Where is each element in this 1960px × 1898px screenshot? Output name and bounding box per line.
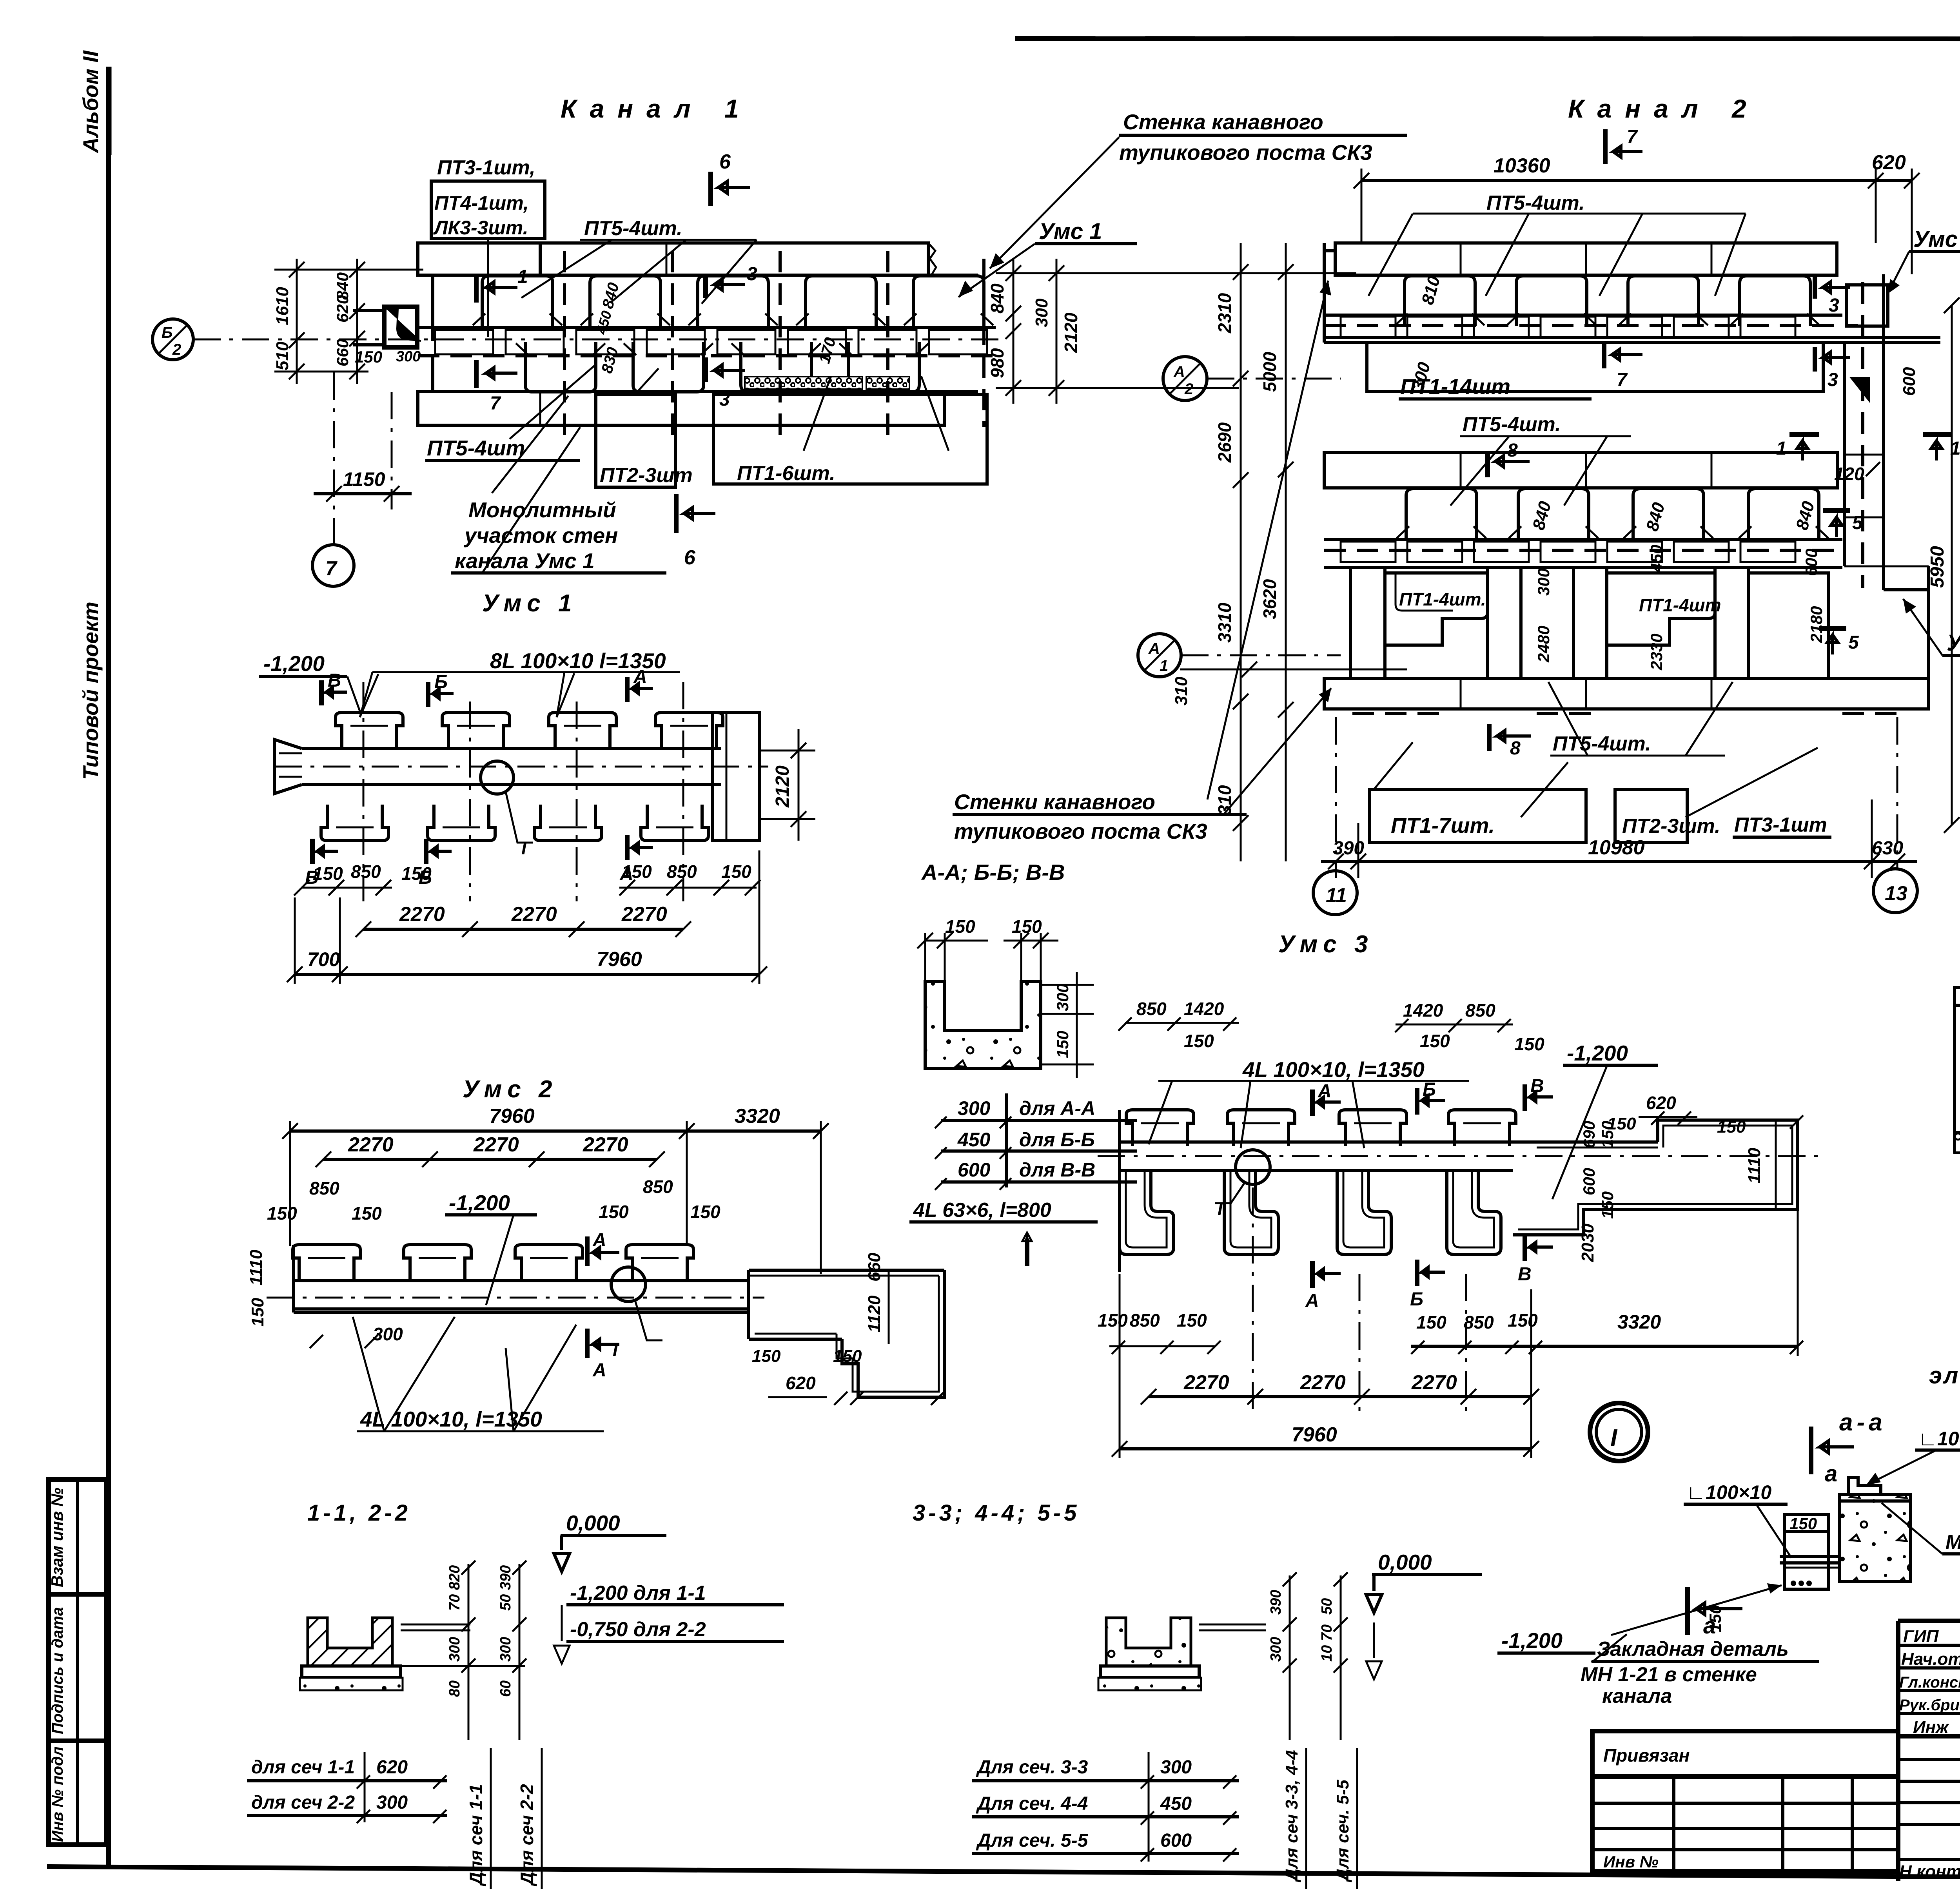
svg-text:Умс 1: Умс 1 — [1039, 219, 1102, 244]
svg-text:150: 150 — [1717, 1117, 1746, 1137]
svg-text:850: 850 — [1464, 1312, 1494, 1332]
svg-text:А: А — [633, 667, 647, 687]
svg-text:2270: 2270 — [399, 903, 445, 926]
svg-text:2120: 2120 — [1061, 312, 1081, 353]
svg-text:150: 150 — [1508, 1310, 1538, 1331]
svg-text:50: 50 — [1319, 1598, 1335, 1615]
svg-text:Умс 1: Умс 1 — [482, 590, 577, 617]
svg-text:ПТ5-4шт.: ПТ5-4шт. — [584, 217, 682, 240]
svg-text:450: 450 — [957, 1129, 991, 1151]
svg-text:3310: 3310 — [1214, 602, 1235, 643]
svg-text:310: 310 — [1172, 676, 1191, 705]
U channel with base — [308, 1618, 392, 1666]
staff table row lines — [1898, 1644, 1960, 1647]
detail circle I small — [481, 761, 514, 794]
svg-text:Рук.бриг: Рук.бриг — [1899, 1697, 1960, 1714]
svg-text:620: 620 — [1872, 151, 1906, 174]
svg-text:2270: 2270 — [511, 903, 557, 926]
left end corner element — [384, 307, 417, 347]
left attach table — [1592, 1731, 1898, 1871]
svg-text:150: 150 — [1416, 1312, 1446, 1332]
svg-text:Инв № подл: Инв № подл — [49, 1746, 66, 1842]
left vertical dims k2 — [1240, 243, 1242, 861]
block row — [418, 326, 996, 329]
PT1-14 box and label — [1367, 343, 1823, 392]
svg-text:3620: 3620 — [1259, 579, 1280, 619]
A section marks — [585, 1236, 590, 1266]
leader box PT4/LK3 — [431, 181, 545, 239]
svg-text:ПТ1-14шт: ПТ1-14шт — [1400, 374, 1510, 399]
svg-text:ПТ5-4шт.: ПТ5-4шт. — [1553, 732, 1651, 755]
vertical dashdot axes — [363, 682, 365, 901]
svg-text:300: 300 — [958, 1097, 991, 1119]
svg-text:Нач.отд.: Нач.отд. — [1901, 1650, 1960, 1669]
svg-text:150: 150 — [1098, 1310, 1128, 1331]
svg-text:ПТ1-4шт.: ПТ1-4шт. — [1399, 589, 1486, 609]
svg-text:2270: 2270 — [1300, 1371, 1346, 1394]
svg-text:элементов каналов - лист 2: элементов каналов - лист 27. — [1929, 1362, 1960, 1389]
right end block — [712, 712, 759, 841]
svg-text:620: 620 — [1646, 1093, 1676, 1113]
svg-text:150: 150 — [833, 1347, 862, 1366]
svg-text:150: 150 — [1514, 1034, 1544, 1054]
svg-text:10980: 10980 — [1588, 836, 1645, 859]
svg-text:150: 150 — [599, 1202, 629, 1222]
title block outer top edge — [1898, 1619, 1960, 1623]
svg-text:А: А — [1173, 363, 1185, 381]
svg-text:390: 390 — [1333, 838, 1364, 859]
dotted KZ strips — [745, 377, 862, 389]
svg-text:7: 7 — [1617, 370, 1628, 390]
svg-text:2690: 2690 — [1214, 422, 1235, 463]
svg-text:ПТ3-1шт,: ПТ3-1шт, — [437, 156, 535, 179]
svg-text:850: 850 — [1465, 1000, 1495, 1021]
svg-text:Для сеч 3-3, 4-4: Для сеч 3-3, 4-4 — [1282, 1750, 1301, 1883]
svg-text:Канал 1: Канал 1 — [561, 94, 752, 123]
svg-text:Взам инв №: Взам инв № — [48, 1488, 66, 1587]
section mark 7 top — [1603, 129, 1608, 164]
svg-text:-1,200: -1,200 — [1567, 1041, 1628, 1065]
right dims of U — [1041, 984, 1094, 986]
top slab band — [418, 243, 928, 275]
section arrows a top — [1809, 1427, 1813, 1474]
svg-text:3-3; 4-4; 5-5: 3-3; 4-4; 5-5 — [913, 1500, 1080, 1526]
svg-text:Б: Б — [1410, 1289, 1423, 1310]
svg-text:ПТ1-7шт.: ПТ1-7шт. — [1391, 813, 1495, 838]
svg-text:для Б-Б: для Б-Б — [1019, 1129, 1095, 1151]
svg-text:1: 1 — [1160, 657, 1168, 674]
svg-text:I: I — [1610, 1425, 1618, 1452]
svg-text:5: 5 — [1852, 513, 1863, 533]
svg-text:10 70: 10 70 — [1319, 1624, 1335, 1662]
svg-text:участок стен: участок стен — [463, 523, 618, 547]
svg-text:ПТ1-6шт.: ПТ1-6шт. — [737, 462, 835, 485]
svg-text:I: I — [613, 1340, 618, 1360]
big detail circle I — [1590, 1403, 1648, 1461]
leader diagonals into slab — [521, 240, 612, 298]
svg-text:300: 300 — [1053, 984, 1072, 1011]
svg-text:150: 150 — [267, 1203, 297, 1224]
svg-text:80: 80 — [446, 1680, 463, 1697]
svg-text:390: 390 — [1268, 1590, 1284, 1615]
svg-text:тупикового поста СК3: тупикового поста СК3 — [1119, 140, 1372, 165]
svg-text:5000: 5000 — [1259, 352, 1280, 392]
svg-text:-1,200: -1,200 — [263, 651, 325, 676]
svg-text:600: 600 — [1900, 367, 1919, 396]
svg-text:Умс 3: Умс 3 — [1278, 931, 1374, 958]
svg-text:660: 660 — [865, 1253, 884, 1282]
svg-text:150: 150 — [622, 861, 652, 882]
svg-text:Б: Б — [434, 672, 448, 692]
U channel section — [925, 981, 1041, 1068]
svg-text:620: 620 — [786, 1373, 816, 1393]
svg-text:Для сеч. 4-4: Для сеч. 4-4 — [976, 1793, 1088, 1814]
svg-text:А: А — [1148, 640, 1160, 657]
svg-text:Типовой проект: Типовой проект — [78, 602, 103, 780]
5 marks — [1823, 508, 1850, 513]
svg-text:а: а — [1703, 1613, 1716, 1639]
svg-text:2270: 2270 — [348, 1133, 394, 1156]
svg-text:150: 150 — [752, 1347, 781, 1366]
bottom border — [47, 1867, 1960, 1881]
2270 row — [1149, 1395, 1531, 1398]
svg-text:2310: 2310 — [1214, 293, 1235, 334]
svg-text:3: 3 — [1828, 370, 1838, 390]
right arm — [1531, 1140, 1658, 1144]
svg-text:0,000: 0,000 — [566, 1511, 620, 1535]
section mark 3 right top — [1813, 274, 1817, 299]
svg-text:для В-В: для В-В — [1019, 1159, 1095, 1181]
dim row 7960 — [295, 973, 759, 976]
svg-text:13: 13 — [1885, 882, 1907, 905]
svg-text:300: 300 — [376, 1792, 408, 1813]
svg-text:ЛК3-3шт.: ЛК3-3шт. — [433, 217, 528, 239]
strip with tabs up — [1120, 1140, 1531, 1144]
svg-text:150: 150 — [1184, 1031, 1214, 1051]
svg-text:300: 300 — [446, 1637, 463, 1662]
upper slab band — [1335, 243, 1837, 275]
svg-text:150: 150 — [945, 916, 975, 937]
svg-text:Стенка канавного: Стенка канавного — [1123, 110, 1323, 134]
bottom dim line k2 — [1321, 860, 1917, 863]
svg-text:Б: Б — [1423, 1079, 1436, 1100]
svg-text:6: 6 — [719, 150, 731, 173]
svg-text:Н контр. Есина: Н контр. Есина — [1899, 1862, 1960, 1881]
svg-text:150: 150 — [401, 863, 432, 884]
2120 vertical right — [798, 729, 800, 841]
Ums2 wall right — [1882, 274, 1885, 590]
svg-text:Для сеч. 3-3: Для сеч. 3-3 — [976, 1757, 1088, 1778]
block row k2 lower — [1324, 538, 1842, 541]
bottom slab band — [418, 392, 945, 425]
svg-text:ПТ3-1шт: ПТ3-1шт — [1734, 814, 1827, 836]
svg-text:700: 700 — [307, 948, 340, 970]
svg-text:3320: 3320 — [1617, 1311, 1661, 1333]
svg-text:150: 150 — [721, 861, 751, 882]
svg-text:а-а: а-а — [1839, 1409, 1886, 1436]
svg-text:А: А — [592, 1360, 606, 1381]
svg-text:600: 600 — [1160, 1830, 1192, 1851]
svg-text:150: 150 — [1789, 1514, 1817, 1533]
left flared end — [274, 740, 302, 794]
svg-text:690: 690 — [1580, 1121, 1598, 1148]
svg-text:а: а — [1825, 1461, 1837, 1486]
svg-text:Для сеч. 5-5: Для сеч. 5-5 — [1333, 1780, 1352, 1883]
svg-text:ГИП: ГИП — [1903, 1627, 1939, 1646]
lower pocket band — [1397, 489, 1486, 539]
svg-text:2270: 2270 — [621, 903, 667, 926]
svg-text:150: 150 — [1598, 1121, 1617, 1148]
svg-text:Б: Б — [162, 324, 172, 341]
svg-text:5: 5 — [1848, 632, 1859, 653]
svg-text:Альбом II: Альбом II — [78, 50, 103, 154]
svg-text:620: 620 — [376, 1757, 408, 1778]
vertical dim lines with small labels — [468, 1564, 470, 1740]
svg-text:Монолитный: Монолитный — [468, 498, 616, 522]
svg-text:4L 63×6, l=800: 4L 63×6, l=800 — [913, 1199, 1051, 1222]
middle slab band — [1324, 453, 1838, 488]
leader box PT1-6 — [713, 394, 987, 484]
svg-text:7: 7 — [325, 557, 338, 580]
svg-text:150: 150 — [352, 1203, 382, 1224]
svg-text:Для сеч 2-2: Для сеч 2-2 — [517, 1784, 537, 1887]
svg-text:1120: 1120 — [865, 1295, 884, 1332]
svg-text:850: 850 — [667, 861, 697, 882]
svg-text:∟100×10: ∟100×10 — [1686, 1481, 1771, 1503]
axis B/2 — [193, 339, 1004, 341]
svg-text:300: 300 — [1534, 568, 1553, 596]
svg-text:8: 8 — [1507, 440, 1518, 461]
centerline — [274, 766, 768, 768]
svg-text:Для сеч. 5-5: Для сеч. 5-5 — [976, 1830, 1089, 1851]
vertical dash-dot axes ums3 — [1252, 1187, 1254, 1411]
svg-text:-1,200: -1,200 — [1501, 1628, 1563, 1653]
svg-text:2: 2 — [172, 341, 181, 358]
svg-text:ПТ4-1шт,: ПТ4-1шт, — [434, 192, 529, 214]
svg-text:150: 150 — [1420, 1031, 1450, 1051]
svg-text:2270: 2270 — [1411, 1371, 1457, 1394]
svg-text:Стенки канавного: Стенки канавного — [954, 790, 1155, 814]
svg-text:620: 620 — [333, 295, 352, 323]
svg-text:600: 600 — [958, 1159, 991, 1181]
staff table outline — [1896, 1621, 1900, 1881]
svg-text:I: I — [1218, 1198, 1223, 1219]
svg-text:ПТ5-4шт.: ПТ5-4шт. — [1463, 413, 1561, 436]
svg-text:0,000: 0,000 — [1378, 1550, 1432, 1574]
left sidebar vertical rule — [106, 67, 111, 1867]
svg-text:2030: 2030 — [1578, 1224, 1597, 1262]
svg-text:для сеч 2-2: для сеч 2-2 — [251, 1792, 355, 1813]
centerline — [267, 1297, 764, 1299]
svg-text:для сеч 1-1: для сеч 1-1 — [251, 1757, 355, 1778]
centerline — [1098, 1155, 1819, 1157]
upper pocket band — [433, 274, 978, 277]
svg-text:450: 450 — [1160, 1793, 1192, 1814]
svg-text:1150: 1150 — [343, 468, 385, 490]
svg-text:-0,750 для 2-2: -0,750 для 2-2 — [570, 1618, 706, 1641]
strip with tabs up — [294, 1279, 749, 1282]
svg-text:3: 3 — [747, 264, 757, 285]
section mark 8 bottom — [1487, 724, 1492, 751]
svg-text:Умс 2: Умс 2 — [463, 1076, 558, 1103]
svg-text:6: 6 — [684, 546, 696, 569]
level lines to right — [401, 1624, 470, 1626]
7960 row — [1120, 1447, 1531, 1450]
svg-text:1110: 1110 — [247, 1249, 266, 1285]
svg-text:2120: 2120 — [772, 765, 793, 808]
svg-text:1110: 1110 — [1745, 1148, 1764, 1184]
section marks 1 top/bottom — [474, 274, 479, 303]
svg-text:60: 60 — [497, 1680, 514, 1697]
block row k2 upper — [1324, 314, 1842, 317]
A/1 circle — [1138, 634, 1181, 677]
section marks bottom — [1305, 1235, 1553, 1311]
bottom slab band k2 — [1324, 678, 1929, 709]
svg-text:2330: 2330 — [1647, 634, 1666, 671]
svg-text:I: I — [521, 838, 527, 858]
lower channel walls — [1349, 567, 1352, 678]
svg-text:для А-А: для А-А — [1019, 1097, 1095, 1119]
svg-text:2480: 2480 — [1534, 626, 1553, 663]
svg-text:Гл.констр: Гл.констр — [1899, 1674, 1960, 1691]
svg-text:МН 1-21 в стенке: МН 1-21 в стенке — [1581, 1663, 1757, 1686]
dim 2270 row — [323, 1158, 657, 1161]
svg-text:660: 660 — [333, 339, 352, 366]
left wall assembly — [1955, 988, 1960, 1153]
svg-text:1-1, 2-2: 1-1, 2-2 — [307, 1500, 411, 1526]
svg-text:ПТ1-4шт: ПТ1-4шт — [1639, 595, 1721, 615]
svg-text:600: 600 — [1580, 1168, 1598, 1195]
svg-text:310: 310 — [1214, 785, 1235, 815]
svg-text:850: 850 — [643, 1177, 673, 1197]
svg-text:8: 8 — [1510, 738, 1521, 759]
svg-text:850: 850 — [1136, 999, 1167, 1019]
section mark 8 top — [1485, 451, 1490, 477]
svg-text:2: 2 — [1184, 381, 1193, 398]
svg-text:850: 850 — [309, 1178, 339, 1198]
svg-text:ПТ2-3шт: ПТ2-3шт — [600, 464, 693, 487]
svg-text:600: 600 — [1802, 549, 1820, 576]
svg-text:ПТ5-4шт.: ПТ5-4шт. — [1486, 192, 1585, 214]
svg-text:тупикового поста СК3: тупикового поста СК3 — [954, 819, 1207, 843]
svg-text:7960: 7960 — [597, 948, 642, 971]
svg-text:Умс3: Умс3 — [1947, 630, 1960, 656]
svg-text:1: 1 — [1776, 438, 1787, 459]
svg-text:7: 7 — [490, 393, 501, 414]
svg-text:150: 150 — [355, 348, 382, 366]
section mark 6 top — [708, 172, 713, 206]
svg-text:1420: 1420 — [1403, 1000, 1443, 1021]
svg-text:1610: 1610 — [273, 287, 292, 325]
Ums2 lower corner / Ums3 arm — [1884, 588, 1929, 591]
svg-text:В: В — [1530, 1076, 1544, 1097]
svg-text:канала Умс 1: канала Умс 1 — [455, 549, 595, 573]
svg-text:150: 150 — [248, 1298, 267, 1327]
dim 7960 / 3320 — [290, 1129, 821, 1133]
svg-text:Инв №: Инв № — [1603, 1853, 1659, 1871]
right arm with foot — [749, 1269, 944, 1272]
svg-text:Подпись и дата: Подпись и дата — [49, 1607, 66, 1734]
svg-text:-1,200 для 1-1: -1,200 для 1-1 — [570, 1582, 706, 1604]
axis circles 11 and 13 — [1313, 871, 1357, 915]
section mark 3 #2 — [1813, 347, 1817, 372]
svg-text:2270: 2270 — [1183, 1371, 1229, 1394]
left axis stack: A/2 circle — [1163, 357, 1207, 401]
a bottom arrow — [1685, 1587, 1690, 1635]
svg-text:150: 150 — [1177, 1310, 1207, 1331]
svg-text:∟100×10: ∟100×10 — [1918, 1428, 1960, 1450]
a-a concrete block — [1839, 1494, 1911, 1582]
sidebar stamp boxes — [49, 1479, 107, 1845]
svg-text:150: 150 — [1598, 1191, 1617, 1219]
svg-text:МН1-21: МН1-21 — [1945, 1531, 1960, 1554]
svg-text:2270: 2270 — [583, 1133, 628, 1156]
right side dims of kanal1 — [1013, 259, 1014, 404]
svg-text:В: В — [1518, 1264, 1532, 1285]
svg-text:150: 150 — [690, 1202, 720, 1222]
svg-text:Привязан: Привязан — [1603, 1745, 1690, 1766]
section marks top — [1312, 1076, 1553, 1116]
svg-text:7: 7 — [1627, 127, 1638, 147]
svg-text:ПТ2-3шт.: ПТ2-3шт. — [1622, 815, 1720, 838]
detail drawing: wall top in plan with angle — [1784, 1514, 1828, 1532]
svg-text:300: 300 — [1160, 1757, 1192, 1778]
section marks 3 — [703, 274, 708, 298]
svg-text:10360: 10360 — [1494, 154, 1550, 177]
svg-text:Умс 2: Умс 2 — [1913, 227, 1960, 252]
5950 dim — [1951, 305, 1953, 825]
connector extension lines — [996, 272, 1356, 274]
svg-text:В: В — [328, 670, 341, 691]
svg-text:А-А; Б-Б; В-В: А-А; Б-Б; В-В — [921, 860, 1065, 885]
svg-text:1420: 1420 — [1184, 999, 1224, 1019]
svg-text:840: 840 — [987, 283, 1007, 314]
svg-text:7960: 7960 — [489, 1105, 535, 1128]
section mark 7 mid — [1602, 343, 1606, 368]
svg-text:Для сеч 1-1: Для сеч 1-1 — [466, 1784, 486, 1887]
vertical dim lines — [1289, 1575, 1291, 1740]
note text — [1929, 1319, 1960, 1389]
leader boxes bottom — [1374, 742, 1413, 789]
svg-text:3: 3 — [1829, 295, 1839, 316]
svg-text:510: 510 — [273, 341, 292, 370]
lower pocket band — [516, 342, 605, 392]
long dashed verticals — [563, 251, 566, 435]
svg-text:300: 300 — [497, 1637, 514, 1662]
svg-text:300: 300 — [1268, 1637, 1284, 1662]
svg-text:Канал 2: Канал 2 — [1568, 94, 1760, 123]
dim row 2270 — [363, 928, 683, 931]
svg-text:150: 150 — [1053, 1031, 1072, 1058]
svg-text:А: А — [1305, 1291, 1319, 1311]
svg-text:А: А — [1318, 1081, 1332, 1102]
svg-text:850: 850 — [1130, 1310, 1160, 1331]
detail circle I in plan — [1236, 1150, 1270, 1184]
svg-text:2180: 2180 — [1807, 606, 1826, 643]
svg-text:630: 630 — [1872, 838, 1903, 859]
top border — [1015, 38, 1960, 39]
svg-text:300: 300 — [1032, 298, 1051, 327]
svg-text:-1,200: -1,200 — [449, 1191, 510, 1215]
leader box PT2 — [596, 394, 675, 487]
detail circle I — [611, 1267, 646, 1302]
svg-text:3: 3 — [719, 389, 730, 410]
svg-text:3320: 3320 — [735, 1105, 780, 1128]
svg-text:70 820: 70 820 — [446, 1565, 463, 1611]
svg-text:Закладная деталь: Закладная деталь — [1597, 1638, 1789, 1661]
svg-text:850: 850 — [351, 861, 381, 882]
level lines right — [1199, 1624, 1266, 1626]
